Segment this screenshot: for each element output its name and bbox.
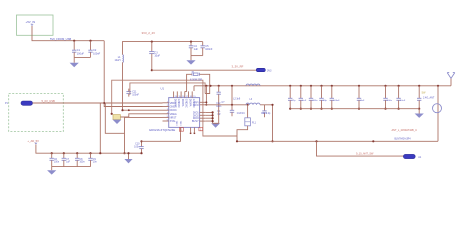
junction n11	[99, 152, 101, 154]
junction n13	[205, 85, 207, 87]
wire 3V3 top rail	[123, 42, 203, 55]
wire X1 left	[185, 74, 192, 91]
svg-text:BLN7642A-2R4: BLN7642A-2R4	[395, 137, 412, 140]
capacitor C10	[141, 141, 143, 146]
ground G1	[73, 57, 75, 62]
svg-text:100nF: 100nF	[132, 94, 139, 97]
svg-text:100nF: 100nF	[93, 52, 101, 55]
capacitor C16	[300, 85, 302, 87]
svg-text:L3: L3	[250, 99, 253, 101]
svg-text:20: 20	[175, 96, 177, 98]
svg-text:19: 19	[179, 96, 181, 98]
svg-text:DCDC: DCDC	[170, 109, 177, 112]
svg-text:NRST: NRST	[170, 116, 177, 119]
capacitor C21	[384, 85, 386, 87]
wire bus to RF	[231, 86, 233, 105]
svg-text:GNDXC: GNDXC	[185, 99, 188, 108]
svg-text:1uF: 1uF	[66, 162, 71, 164]
ground G3	[113, 120, 122, 124]
junction n10	[89, 152, 91, 154]
svg-text:C?: C?	[222, 102, 226, 104]
svg-text:SW: SW	[422, 91, 427, 94]
svg-text:+5V_IN: +5V_IN	[26, 20, 36, 24]
filter FL1	[247, 105, 249, 118]
svg-text:5V0_FROM_USB: 5V0_FROM_USB	[50, 37, 71, 41]
wire to port ANT_SW	[317, 141, 405, 156]
svg-text:100nF: 100nF	[205, 48, 213, 51]
svg-text:C13 NC: C13 NC	[237, 113, 246, 115]
svg-text:VREG: VREG	[170, 113, 177, 116]
wire USB 5V to U1	[33, 102, 163, 104]
wire TX branch	[272, 105, 274, 142]
svg-text:2.4G_ANT: 2.4G_ANT	[423, 97, 435, 100]
svg-text:DIOPA: DIOPA	[188, 99, 191, 107]
wire cap bottoms	[74, 56, 90, 58]
RF connector J2	[437, 86, 439, 142]
svg-text:10uF: 10uF	[400, 100, 406, 102]
junction n1	[73, 40, 75, 42]
wire FB1 to pin	[120, 114, 162, 117]
svg-text:C8: C8	[80, 159, 84, 161]
junction n20	[236, 140, 238, 142]
wire cap bank bottoms	[290, 108, 419, 110]
svg-text:100n: 100n	[80, 162, 86, 164]
svg-text:10n: 10n	[93, 162, 98, 164]
wire U1 gnd pins	[206, 112, 213, 123]
junction n12	[212, 111, 214, 113]
capacitor C15	[289, 85, 291, 87]
svg-text:U1: U1	[161, 86, 165, 90]
capacitor C23	[418, 85, 420, 87]
inductor L1	[122, 55, 125, 63]
wire DIO feed	[125, 117, 163, 153]
svg-text:18: 18	[182, 96, 184, 98]
capacitor C5	[202, 42, 204, 46]
wire 5V from J1	[32, 26, 104, 41]
junction n22	[372, 140, 374, 142]
junction n4	[190, 41, 192, 43]
junction n3	[151, 41, 153, 43]
svg-text:1uF: 1uF	[302, 100, 306, 102]
svg-text:3V3_2_4V: 3V3_2_4V	[142, 31, 156, 35]
ground G7	[418, 109, 420, 114]
capacitor C6	[51, 153, 53, 158]
svg-text:+_AD_5V: +_AD_5V	[27, 139, 39, 143]
svg-text:100n: 100n	[216, 106, 222, 108]
wire RF out	[206, 104, 272, 106]
svg-text:GD6216-6TQFN24E: GD6216-6TQFN24E	[149, 128, 175, 132]
svg-text:DIOPA: DIOPA	[181, 99, 184, 107]
svg-text:3_3V_RF: 3_3V_RF	[232, 65, 244, 69]
junction n6	[123, 152, 125, 154]
junction n2	[89, 40, 91, 42]
capacitor C4	[190, 42, 192, 46]
capacitor C1	[73, 41, 75, 51]
svg-text:XTAL: XTAL	[176, 120, 179, 126]
capacitor C9	[90, 153, 92, 158]
U1 left pins 1-6	[163, 102, 169, 104]
svg-text:C9: C9	[93, 159, 97, 161]
junction n18	[247, 104, 249, 106]
svg-text:VBAT: VBAT	[170, 102, 177, 105]
U1 bottom pin stubs	[190, 132, 192, 134]
port ANT_SW	[403, 154, 415, 158]
junction n17	[231, 104, 233, 106]
svg-text:R1: R1	[218, 111, 222, 113]
svg-text:ANT_L_2450AT42B_U: ANT_L_2450AT42B_U	[392, 129, 418, 132]
junction n15	[218, 85, 220, 87]
svg-text:18p: 18p	[323, 100, 327, 102]
svg-text:9_10_ANT_SW: 9_10_ANT_SW	[356, 153, 374, 156]
power port 3V3	[256, 68, 265, 71]
capacitor C19	[331, 85, 333, 87]
ferrite bead FB1	[113, 115, 120, 120]
wire sense B	[105, 103, 124, 133]
svg-text:FL1: FL1	[252, 122, 257, 124]
capacitor C8	[76, 153, 78, 158]
svg-text:17: 17	[186, 96, 188, 98]
junction n7	[51, 152, 53, 154]
wire sense A	[99, 103, 101, 153]
svg-text:100n: 100n	[54, 162, 60, 164]
svg-text:100n: 100n	[134, 146, 140, 149]
junction n16	[231, 85, 233, 87]
wire U1 pin9 down	[142, 132, 181, 141]
ground G6	[211, 123, 220, 127]
USB module outline	[9, 94, 64, 132]
svg-text:GNDA: GNDA	[170, 106, 178, 109]
svg-text:XTAL: XTAL	[170, 120, 177, 123]
wire antenna bus	[194, 86, 451, 91]
svg-text:3V3: 3V3	[267, 69, 272, 72]
U1 top pins 20-15	[173, 91, 175, 97]
junction n5	[151, 69, 153, 71]
capacitor C17	[310, 85, 312, 87]
capacitor C18	[320, 85, 322, 87]
junction n8	[63, 152, 65, 154]
wire L1 to pin	[123, 109, 163, 111]
wire 3_3V rail	[152, 69, 257, 71]
svg-text:100nF: 100nF	[333, 100, 340, 102]
capacitor C2	[90, 41, 92, 51]
ground G2	[190, 56, 192, 61]
svg-text:12p: 12p	[292, 100, 296, 102]
svg-text:P1: P1	[5, 102, 9, 105]
junction n21	[315, 140, 317, 142]
wire VBAT feed	[104, 41, 162, 107]
svg-text:C14 1.2p: C14 1.2p	[261, 113, 271, 115]
ground G4	[51, 167, 53, 171]
svg-text:10uH: 10uH	[115, 59, 121, 62]
port 5V0_USB	[21, 101, 33, 105]
junction n14	[209, 85, 211, 87]
svg-text:A1: A1	[418, 156, 422, 159]
svg-text:RFO: RFO	[193, 104, 198, 107]
pcb tag 1	[179, 128, 183, 132]
capacitor C22	[398, 85, 400, 87]
svg-text:100n: 100n	[387, 100, 393, 102]
svg-text:XTAL: XTAL	[179, 120, 182, 126]
svg-text:1uF: 1uF	[361, 100, 365, 102]
capacitor C20	[358, 85, 360, 87]
wire X1 right	[200, 74, 210, 93]
antenna ANT1	[450, 78, 452, 85]
svg-text:L2 3n9: L2 3n9	[233, 99, 241, 101]
svg-text:C7: C7	[66, 159, 70, 161]
pcb tag 2	[199, 128, 203, 131]
wire DIO route A	[112, 80, 237, 136]
svg-text:10uF: 10uF	[154, 55, 160, 58]
svg-text:8.00M 25P: 8.00M 25P	[190, 78, 202, 81]
ground G5	[128, 153, 130, 159]
wire C6-C9 bottoms	[52, 166, 91, 168]
wire ANT switch rail	[237, 140, 438, 142]
svg-text:100uF: 100uF	[77, 52, 85, 55]
capacitor C11	[126, 91, 131, 93]
inductor L2	[246, 84, 260, 86]
U1 right pins	[200, 101, 206, 103]
svg-text:GNDXC: GNDXC	[177, 99, 180, 108]
inductor L3	[246, 103, 260, 105]
wire DIO route B	[130, 83, 205, 95]
svg-text:16: 16	[190, 96, 192, 98]
power input block J1	[17, 15, 54, 35]
wire AD5V rail	[36, 144, 142, 153]
junction n9	[76, 152, 78, 154]
svg-text:100n: 100n	[313, 100, 319, 102]
junction n19	[437, 85, 439, 87]
capacitor C14	[264, 105, 266, 111]
capacitor C7	[63, 153, 65, 158]
capacitor C12	[218, 86, 220, 92]
svg-text:C6: C6	[54, 159, 58, 161]
capacitor C3 on rail	[151, 42, 153, 52]
capacitor C13	[231, 105, 233, 111]
wire C4-C5 bottoms	[191, 55, 203, 57]
U1 bottom pins	[180, 127, 182, 132]
svg-text:1uF: 1uF	[194, 48, 199, 51]
IC U1 body	[169, 98, 200, 128]
svg-text:BUSY: BUSY	[192, 120, 199, 123]
svg-text:15: 15	[193, 96, 195, 98]
